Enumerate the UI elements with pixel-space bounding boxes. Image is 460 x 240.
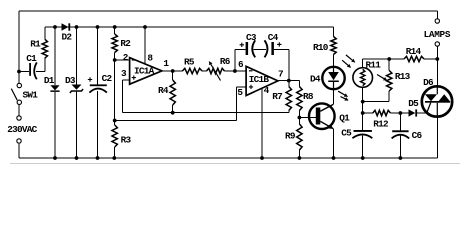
node pin2 junction: [113, 58, 117, 62]
resistor R9: [297, 124, 302, 150]
node D3 bus junction: [75, 25, 79, 29]
wire Q1 base: [299, 117, 315, 119]
wire pin 5 input: [236, 87, 246, 120]
switch SW1 terminal top: [17, 83, 21, 87]
resistor R2: [112, 34, 117, 53]
wire IC1A output: [162, 70, 183, 72]
svg-text:1: 1: [163, 58, 169, 69]
wire bottom rail (node N): [19, 144, 437, 158]
node C5 bottom junction: [361, 156, 365, 160]
svg-text:R11: R11: [366, 60, 382, 71]
wire C4 to output riser: [274, 49, 289, 80]
wire R1 top to bus: [44, 27, 46, 39]
node C6 bottom junction: [399, 156, 403, 160]
svg-text:R5: R5: [184, 57, 195, 68]
node Q1 base junction: [298, 116, 302, 120]
trimmer R6 arrow: [209, 62, 220, 81]
wire R9 bottom: [298, 150, 300, 158]
node R4 top junction: [171, 69, 175, 73]
diode D5: [409, 109, 416, 116]
resistor R13 (trimmer): [387, 71, 392, 92]
svg-text:D5: D5: [408, 98, 419, 109]
svg-text:R7: R7: [272, 91, 282, 102]
switch SW1 lever: [11, 89, 17, 101]
wire R7 bottom: [288, 111, 290, 113]
node C1 tap junction: [17, 70, 21, 74]
svg-text:IC1B: IC1B: [249, 74, 270, 85]
node C2 bottom junction: [96, 156, 100, 160]
terminal LAMPS bottom: [435, 42, 439, 46]
wire R8 top: [298, 81, 300, 87]
svg-text:R9: R9: [285, 130, 296, 141]
svg-text:2: 2: [123, 52, 129, 63]
wire R5 to R6: [202, 70, 207, 72]
resistor R12: [373, 110, 391, 115]
node pin7 junction: [287, 79, 291, 83]
svg-text:D1: D1: [44, 75, 55, 86]
svg-text:R2: R2: [120, 38, 131, 49]
wire C1 right to R1: [36, 58, 45, 71]
wire C2 column upper: [97, 27, 99, 84]
op-amp IC1B plus: [249, 85, 253, 89]
svg-text:LAMPS: LAMPS: [424, 29, 451, 40]
svg-text:Q1: Q1: [339, 112, 350, 123]
triac D6: [422, 86, 452, 116]
wire R9 top: [298, 118, 300, 125]
label C2 plus: [88, 77, 92, 81]
wire R4 top: [172, 71, 174, 80]
wire R13 return: [363, 91, 390, 102]
svg-text:C3: C3: [246, 32, 257, 43]
resistor R8: [297, 87, 302, 111]
op-amp IC1A plus: [132, 76, 136, 80]
svg-text:4: 4: [264, 85, 270, 96]
led D4: [322, 67, 344, 89]
wire pin 8 supply: [144, 27, 146, 64]
wire C1 left: [19, 71, 29, 73]
terminal 230VAC top: [17, 116, 21, 120]
resistor R5: [182, 68, 202, 73]
wire C6 bottom: [399, 136, 401, 159]
resistor R14: [404, 56, 424, 61]
label C4 plus: [277, 42, 281, 46]
resistor R4: [170, 80, 175, 105]
terminal LAMPS top: [435, 19, 439, 23]
node R4 loop junction: [171, 111, 175, 115]
svg-text:5: 5: [237, 87, 243, 98]
wire R2-R3 column: [114, 53, 116, 126]
wire R6 to pin 6: [225, 70, 247, 72]
wire R11 top riser: [363, 59, 390, 68]
svg-text:C2: C2: [102, 73, 113, 84]
wire pin 4 ground: [261, 88, 263, 158]
svg-text:D2: D2: [62, 31, 73, 42]
capacitor C6: [392, 130, 408, 132]
wire R14 left: [389, 58, 404, 60]
svg-text:D6: D6: [423, 77, 434, 88]
node pin6 junction: [233, 69, 237, 73]
svg-text:7: 7: [278, 69, 283, 80]
node pin5 loop junction: [113, 119, 117, 123]
op-amp IC1B minus: [249, 70, 253, 72]
wire R4 bottom: [172, 105, 174, 113]
wire R8 bottom: [298, 111, 300, 118]
node R13 top junction: [387, 57, 391, 61]
node C6 junction: [399, 111, 403, 115]
svg-text:R6: R6: [220, 56, 231, 67]
svg-text:R12: R12: [373, 119, 389, 130]
svg-text:6: 6: [238, 59, 244, 70]
node R3 bottom junction: [112, 156, 116, 160]
wire switch to plug: [18, 105, 20, 116]
svg-text:R14: R14: [406, 46, 422, 57]
node R14 lamp junction: [435, 57, 439, 61]
resistor R10: [331, 37, 336, 55]
wire top rail drop to lamp terminal: [436, 11, 438, 19]
svg-text:C6: C6: [412, 130, 423, 141]
wire left mains column: [18, 11, 20, 83]
diode D1: [50, 85, 59, 90]
wire R10 to D4: [333, 55, 335, 67]
svg-text:R4: R4: [158, 85, 169, 96]
svg-text:R13: R13: [395, 71, 411, 82]
wire D4 to Q1 collector: [333, 89, 335, 104]
svg-text:R8: R8: [303, 91, 314, 102]
capacitor C1: [29, 63, 31, 76]
wire inverting loop (pin3-R4-R7): [122, 112, 288, 114]
capacitor C5: [354, 130, 372, 132]
wire D1 column upper: [54, 27, 56, 85]
op-amp IC1A minus: [132, 59, 136, 61]
wire C5 bottom: [362, 135, 364, 158]
node pin8 bus junction: [143, 25, 147, 29]
wire pin 3 input: [122, 80, 129, 113]
node pin4 bottom junction: [260, 156, 264, 160]
transistor Q1 emitter: [320, 121, 333, 129]
svg-text:3: 3: [121, 68, 127, 79]
wire D5 to triac gate: [417, 112, 427, 114]
wire positive supply bus: [45, 26, 334, 28]
node D3 bottom junction: [75, 156, 79, 160]
led D4 emission arrows: [338, 91, 348, 96]
label C3 plus: [240, 43, 244, 47]
wire mains top rail (node L): [19, 10, 437, 12]
wire R14 right: [424, 58, 437, 60]
node D1 bus junction: [53, 25, 57, 29]
transistor Q1: [309, 103, 335, 129]
zener D3: [72, 85, 82, 90]
wire pin 2 input: [115, 59, 130, 61]
ldr R11 arrows: [346, 55, 355, 62]
diode D2: [62, 23, 69, 30]
svg-text:C1: C1: [26, 53, 37, 64]
wire IC1B output: [278, 80, 300, 82]
wire R13 top: [388, 59, 390, 71]
svg-text:R10: R10: [313, 42, 329, 53]
wire R12 left: [363, 112, 373, 114]
ldr R11: [353, 68, 373, 88]
wire triac to bottom rail: [436, 117, 438, 158]
switch SW1 terminal bottom: [17, 100, 21, 104]
svg-text:R3: R3: [121, 134, 132, 145]
wire R2 top: [114, 27, 116, 34]
node C2 bus junction: [96, 25, 100, 29]
wire C3-C4 link: [254, 48, 267, 50]
node Q1 emitter junction: [332, 156, 336, 160]
svg-text:D3: D3: [65, 75, 76, 86]
trimmer R13 arrow: [377, 75, 387, 81]
svg-text:IC1A: IC1A: [134, 66, 155, 77]
svg-text:C5: C5: [341, 127, 352, 138]
resistor R1: [42, 39, 47, 58]
node D1 bottom junction: [53, 156, 57, 160]
terminal 230VAC bottom: [17, 139, 21, 143]
wire lamp terminal to triac: [436, 46, 438, 86]
node R2 bus junction: [113, 25, 117, 29]
wire R7 top: [288, 81, 290, 87]
node R9 bottom junction: [298, 156, 302, 160]
wire shadow line: [10, 163, 460, 165]
wire D3 column upper: [76, 27, 78, 85]
wire noninverting loop (pin5 to R2/R3): [115, 120, 237, 122]
wire bus corner to R10: [333, 27, 335, 37]
wire Q1 emitter to rail: [333, 129, 335, 158]
resistor R3: [112, 125, 117, 147]
wire R3 bottom: [114, 147, 116, 158]
svg-text:8: 8: [147, 53, 153, 64]
capacitor C3: [246, 42, 249, 55]
node R13 return junction: [361, 100, 365, 104]
wire D3 column lower: [76, 92, 78, 159]
wire C6 top: [399, 113, 401, 130]
svg-text:D4: D4: [310, 74, 321, 85]
svg-text:230VAC: 230VAC: [7, 124, 37, 135]
capacitor C2: [90, 84, 107, 86]
node R12 junction: [361, 111, 365, 115]
wire C3 riser: [235, 49, 246, 71]
wire D1 column lower: [54, 92, 56, 158]
svg-text:SW1: SW1: [23, 90, 39, 101]
capacitor C4: [265, 40, 268, 57]
wire R11 bottom column: [362, 87, 364, 130]
wire R12 to D5: [390, 112, 408, 114]
svg-text:C4: C4: [268, 32, 279, 43]
op-amp IC1A: [130, 58, 162, 85]
svg-text:R1: R1: [30, 39, 41, 50]
resistor R7: [286, 87, 291, 111]
op-amp IC1B: [246, 66, 278, 95]
wire C2 column lower: [97, 91, 99, 158]
resistor R6 (trimmer): [207, 68, 225, 73]
